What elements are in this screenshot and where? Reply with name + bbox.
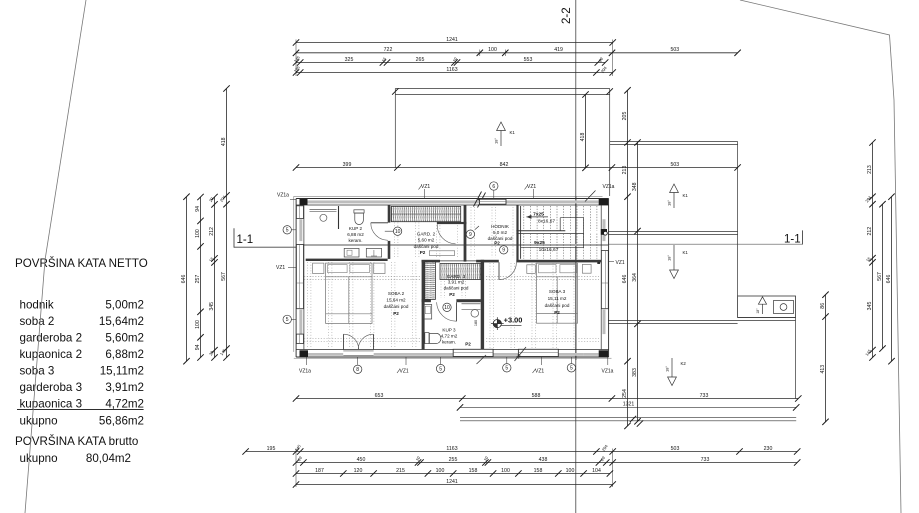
roof plane right edge xyxy=(737,142,739,297)
svg-text:KUP 3: KUP 3 xyxy=(442,328,456,333)
masonry pier stripe right wall xyxy=(603,310,606,335)
svg-text:POVRŠINA KATA NETTO: POVRŠINA KATA NETTO xyxy=(15,257,148,270)
svg-text:1-1: 1-1 xyxy=(784,233,801,245)
svg-text:4,72 m2: 4,72 m2 xyxy=(441,334,458,339)
ridge anchor block on right wall xyxy=(601,229,607,235)
circled number 9 in HODNIK xyxy=(466,230,474,238)
dimension chain bottom line 1 (195/1163/503/230) xyxy=(246,451,798,453)
svg-text:5: 5 xyxy=(439,366,442,372)
svg-text:P2: P2 xyxy=(449,292,455,297)
corner ticks upper rectangle xyxy=(392,88,398,94)
svg-text:503: 503 xyxy=(670,47,679,53)
svg-text:5,00m2: 5,00m2 xyxy=(105,299,144,312)
svg-text:348: 348 xyxy=(632,182,638,191)
dimension chain mid (653/588/733) xyxy=(296,398,798,400)
svg-text:187: 187 xyxy=(315,468,324,474)
drawer cabinet GARD2 xyxy=(429,251,454,256)
svg-text:18°: 18° xyxy=(667,200,672,206)
svg-text:10x16,67: 10x16,67 xyxy=(539,247,559,253)
svg-text:5: 5 xyxy=(505,366,508,372)
masonry pier stripes left wall xyxy=(299,219,302,241)
window mark slashes with labels xyxy=(477,355,487,364)
svg-text:2-2: 2-2 xyxy=(561,7,573,24)
svg-text:HODNIK: HODNIK xyxy=(491,224,510,229)
svg-text:503: 503 xyxy=(670,162,679,168)
svg-text:K1: K1 xyxy=(683,250,689,255)
nightstands SOBA2 xyxy=(313,263,324,273)
svg-text:5,60 m2: 5,60 m2 xyxy=(418,238,435,243)
svg-text:80,04m2: 80,04m2 xyxy=(86,452,131,465)
svg-text:100: 100 xyxy=(501,468,510,474)
roof plane K1 top edge xyxy=(610,141,738,143)
bed SOBA2 xyxy=(326,263,372,323)
svg-text:5,0 m2: 5,0 m2 xyxy=(493,230,507,235)
svg-text:345: 345 xyxy=(867,302,873,311)
window in right wall xyxy=(601,251,608,309)
dimension chain left (29/212/16/345/29) xyxy=(214,197,216,358)
svg-text:5: 5 xyxy=(286,228,289,234)
exterior wall bottom xyxy=(296,349,608,351)
masonry stripe segments bottom wall xyxy=(308,353,343,356)
dimension chain top line 3 xyxy=(296,62,605,64)
svg-text:733: 733 xyxy=(701,457,710,463)
balcony double door xyxy=(344,334,359,349)
svg-text:15,64m2: 15,64m2 xyxy=(99,315,144,328)
svg-text:3,91 m2: 3,91 m2 xyxy=(448,280,465,285)
dimension chain 399/842 xyxy=(296,167,738,169)
svg-text:VZ1a: VZ1a xyxy=(277,192,289,198)
svg-text:325: 325 xyxy=(345,57,354,63)
svg-text:SOBA 3: SOBA 3 xyxy=(549,289,566,294)
svg-text:VZ1a: VZ1a xyxy=(603,184,615,190)
svg-text:5: 5 xyxy=(570,366,573,372)
KUP3 top wall xyxy=(422,299,431,302)
svg-text:9x25: 9x25 xyxy=(534,240,545,246)
svg-text:254: 254 xyxy=(622,389,628,398)
svg-text:1163: 1163 xyxy=(446,446,457,452)
circled number 10 near KUP2 door xyxy=(385,230,394,232)
wardrobe GARD3 left xyxy=(425,262,436,300)
toilet KUP2 xyxy=(354,210,364,213)
svg-text:POVRŠINA KATA brutto: POVRŠINA KATA brutto xyxy=(15,435,138,448)
block at stair bottom-right xyxy=(597,261,600,264)
svg-text:VZ1: VZ1 xyxy=(276,265,285,271)
wardrobe GARD2 xyxy=(391,206,461,221)
svg-text:9: 9 xyxy=(469,232,472,238)
floorboard dotted lines xyxy=(308,207,575,349)
svg-text:733: 733 xyxy=(700,393,709,399)
svg-text:15,11m2: 15,11m2 xyxy=(100,365,144,378)
window in top wall (stairwell) xyxy=(480,199,507,204)
svg-text:1321: 1321 xyxy=(623,402,635,408)
attic kneewall dashed lines xyxy=(304,277,599,342)
door SOBA3 xyxy=(498,262,500,279)
svg-text:1241: 1241 xyxy=(446,37,458,43)
dimension chain right (213/294/212/16/345/29) xyxy=(872,143,874,358)
svg-text:100: 100 xyxy=(436,468,445,474)
dimension chain bottom line 3 (187/120/215/100/158/...) xyxy=(296,473,610,475)
svg-text:653: 653 xyxy=(375,393,384,399)
svg-text:10: 10 xyxy=(444,305,450,311)
svg-text:180: 180 xyxy=(474,320,478,326)
area table: POVRSINA KATA NETTO xyxy=(15,257,148,465)
svg-text:18°: 18° xyxy=(667,255,672,261)
svg-text:daščani pod: daščani pod xyxy=(384,304,409,309)
dimension chain left total 646 xyxy=(186,197,188,362)
svg-text:5: 5 xyxy=(286,317,289,323)
roof arrow K1 lower xyxy=(670,270,679,279)
roof plane K2 xyxy=(795,318,797,399)
toilet KUP3 xyxy=(425,333,429,344)
svg-text:450: 450 xyxy=(357,457,366,463)
svg-text:6,88m2: 6,88m2 xyxy=(105,348,144,361)
circled number 9 lower xyxy=(500,246,508,254)
svg-text:195: 195 xyxy=(267,446,276,452)
roof arrow K1 upper xyxy=(670,184,679,193)
svg-text:553: 553 xyxy=(524,57,533,63)
dimension chain right 567 xyxy=(882,204,884,348)
KUP3 right wall xyxy=(481,260,484,350)
interior wall GARD2/HODNIK vertical xyxy=(464,205,467,262)
svg-text:hodnik: hodnik xyxy=(20,299,54,312)
KUP3/GARD3 left wall xyxy=(422,262,425,350)
svg-text:+3.00: +3.00 xyxy=(504,316,523,325)
roof ridge line xyxy=(608,231,738,233)
circled number 10 at KUP3 door xyxy=(443,303,451,311)
svg-text:P2: P2 xyxy=(420,250,426,255)
svg-text:213: 213 xyxy=(622,166,628,175)
svg-text:K1: K1 xyxy=(510,130,516,135)
svg-text:P2: P2 xyxy=(465,342,471,347)
svg-text:daščani pod: daščani pod xyxy=(488,236,513,241)
svg-text:94: 94 xyxy=(195,344,201,350)
extension lines for top chains xyxy=(295,40,297,77)
svg-text:KUP 2: KUP 2 xyxy=(349,226,363,231)
svg-text:18°: 18° xyxy=(665,366,670,372)
svg-text:100: 100 xyxy=(195,229,201,238)
break slashes at stair window xyxy=(474,192,482,207)
svg-text:158: 158 xyxy=(534,468,543,474)
svg-text:646: 646 xyxy=(181,275,187,284)
dimension chain top line 4 (1163) xyxy=(296,72,613,74)
svg-text:646: 646 xyxy=(622,275,628,284)
dimension chain right 646 xyxy=(891,197,893,362)
svg-text:garderoba 3: garderoba 3 xyxy=(20,381,83,394)
window in bottom wall xyxy=(453,349,493,356)
svg-text:7x25: 7x25 xyxy=(533,211,544,217)
window in left wall xyxy=(296,206,303,219)
svg-text:daščani pod: daščani pod xyxy=(414,244,439,249)
window in bottom wall xyxy=(518,349,558,356)
dimension chain 86/413 xyxy=(825,295,827,422)
svg-text:213: 213 xyxy=(867,165,873,174)
svg-text:5,60m2: 5,60m2 xyxy=(105,332,144,345)
dimension chain left (94/100/257/100/94) xyxy=(200,197,202,358)
svg-text:212: 212 xyxy=(209,227,215,236)
svg-text:413: 413 xyxy=(820,365,826,374)
svg-text:ukupno: ukupno xyxy=(20,452,58,465)
svg-text:ukupno: ukupno xyxy=(20,415,58,428)
dimension chain 348/364/383 xyxy=(637,143,639,422)
svg-text:15,11 m2: 15,11 m2 xyxy=(548,296,567,301)
roof slope arrow K1 upper-left xyxy=(497,122,506,131)
door GARD2 xyxy=(437,222,467,224)
svg-text:383: 383 xyxy=(632,368,638,377)
svg-text:VZ1: VZ1 xyxy=(616,260,625,266)
svg-text:VZ1: VZ1 xyxy=(421,184,430,190)
svg-text:P2: P2 xyxy=(554,310,560,315)
dimension chain 205/213/646/254 xyxy=(627,90,629,426)
svg-text:GARD. 3: GARD. 3 xyxy=(447,274,466,279)
balcony door opening bottom xyxy=(343,350,373,356)
corner pier bottom-left xyxy=(300,350,309,357)
svg-text:646: 646 xyxy=(886,275,892,284)
interior wall KUP2/GARD2 vertical xyxy=(388,205,391,223)
svg-text:garderoba 2: garderoba 2 xyxy=(20,332,83,345)
svg-text:158: 158 xyxy=(469,468,478,474)
svg-text:kupaonica 2: kupaonica 2 xyxy=(20,348,83,361)
stair mid rails xyxy=(516,230,565,232)
underline under kupaonica 3 row xyxy=(17,408,144,410)
svg-text:345: 345 xyxy=(209,302,215,311)
svg-text:100: 100 xyxy=(195,320,201,329)
exterior wall left xyxy=(295,199,297,358)
svg-text:399: 399 xyxy=(343,162,352,168)
svg-text:722: 722 xyxy=(384,47,393,53)
interior wall below KUP2 xyxy=(306,259,388,261)
lower-storey outline rectangle xyxy=(395,88,609,90)
svg-text:8x16,67: 8x16,67 xyxy=(538,219,555,225)
section line 2-2 xyxy=(575,0,577,196)
svg-text:104: 104 xyxy=(592,468,601,474)
svg-text:6,88 m2: 6,88 m2 xyxy=(347,232,364,237)
svg-text:6: 6 xyxy=(492,184,495,190)
window in left wall xyxy=(296,245,303,309)
svg-text:VZ1a: VZ1a xyxy=(299,368,311,374)
svg-text:SOBA 2: SOBA 2 xyxy=(388,291,405,296)
roof eave line above K2 xyxy=(608,320,796,322)
svg-text:P2: P2 xyxy=(494,241,500,246)
dimension chain 1321 xyxy=(457,404,463,410)
lower eave lines xyxy=(460,406,796,408)
vanity KUP2 xyxy=(310,208,337,210)
corner pier bottom-right xyxy=(599,350,609,357)
svg-text:K2: K2 xyxy=(681,361,687,366)
window in left wall xyxy=(296,334,303,343)
svg-text:1163: 1163 xyxy=(446,67,457,73)
building outer contour offset line xyxy=(294,196,603,352)
svg-text:18°: 18° xyxy=(756,308,760,314)
svg-text:255: 255 xyxy=(449,457,458,463)
section line 1-1 xyxy=(234,246,296,248)
svg-text:418: 418 xyxy=(580,133,586,142)
corner pier top-right xyxy=(599,199,609,205)
stairwell left wall xyxy=(516,205,518,262)
svg-text:503: 503 xyxy=(671,446,680,452)
nightstands SOBA3 xyxy=(527,265,536,274)
svg-text:1-1: 1-1 xyxy=(237,234,254,246)
door KUP2 xyxy=(371,222,388,224)
svg-text:10: 10 xyxy=(395,229,401,235)
svg-text:GARD. 2: GARD. 2 xyxy=(417,232,436,237)
dormer box with skylight xyxy=(738,296,796,318)
interior wall below HODNIK/stairs xyxy=(422,260,441,263)
door KUP3 xyxy=(456,302,458,321)
wardrobe GARD3 right xyxy=(440,264,481,280)
svg-text:120: 120 xyxy=(354,468,363,474)
dimension chain bottom line 4 (1241) xyxy=(296,484,613,486)
corner pier top-left xyxy=(300,199,308,205)
svg-text:daščani pod: daščani pod xyxy=(444,285,469,290)
svg-text:100: 100 xyxy=(566,468,575,474)
svg-text:15,64 m2: 15,64 m2 xyxy=(386,298,406,303)
dimension chain upper-mid 418 xyxy=(585,95,587,168)
exterior wall right xyxy=(608,199,610,358)
stair walk-line arrow xyxy=(526,216,548,218)
roof arrow K2 xyxy=(668,377,677,386)
svg-text:86: 86 xyxy=(820,303,826,309)
property boundary line left xyxy=(25,0,86,513)
svg-text:VZ1: VZ1 xyxy=(400,368,409,374)
svg-text:364: 364 xyxy=(632,273,638,282)
svg-text:212: 212 xyxy=(867,227,873,236)
svg-text:588: 588 xyxy=(532,393,541,399)
svg-text:keram.: keram. xyxy=(348,238,362,243)
cabinet KUP3 xyxy=(424,305,432,320)
property boundary line right xyxy=(740,0,901,513)
stair landing outline xyxy=(520,206,522,259)
washer and dryer boxes xyxy=(344,248,359,257)
dimension chain top line 1 (1241) xyxy=(296,42,613,44)
staircase treads xyxy=(524,206,597,259)
svg-text:842: 842 xyxy=(500,162,509,168)
half wall in KUP2 xyxy=(338,206,340,229)
dimension chain left outer (418 + 294/567/145) xyxy=(226,89,228,358)
svg-text:1241: 1241 xyxy=(446,479,458,485)
svg-text:418: 418 xyxy=(221,137,227,146)
dimension chain bottom line 2 (450/255/438/733) xyxy=(296,462,797,464)
svg-text:VZ1: VZ1 xyxy=(535,368,544,374)
svg-text:100: 100 xyxy=(488,47,497,53)
svg-text:keram.: keram. xyxy=(442,340,456,345)
svg-text:94: 94 xyxy=(195,206,201,212)
svg-text:VZ1a: VZ1a xyxy=(602,368,614,374)
svg-text:56,86m2: 56,86m2 xyxy=(99,415,144,428)
svg-text:419: 419 xyxy=(554,47,563,53)
washbasin counter KUP3 xyxy=(462,303,481,305)
svg-text:P2: P2 xyxy=(393,311,399,316)
dimension chain top line 2 (722/100/419/503) xyxy=(296,52,738,54)
svg-text:daščani pod: daščani pod xyxy=(545,303,570,308)
svg-text:soba 2: soba 2 xyxy=(20,315,55,328)
svg-text:4,72m2: 4,72m2 xyxy=(105,398,144,411)
svg-text:kupaonica 3: kupaonica 3 xyxy=(20,398,83,411)
exterior wall top xyxy=(296,198,608,200)
bed SOBA3 xyxy=(537,263,578,323)
svg-text:567: 567 xyxy=(221,272,227,281)
svg-text:567: 567 xyxy=(877,272,883,281)
svg-text:265: 265 xyxy=(416,57,425,63)
svg-text:205: 205 xyxy=(622,112,628,121)
level marker +3.00 xyxy=(493,320,501,328)
svg-text:215: 215 xyxy=(396,468,405,474)
svg-text:VZ1: VZ1 xyxy=(527,184,536,190)
extension lines for bottom chains xyxy=(295,449,297,488)
svg-text:9: 9 xyxy=(502,248,505,254)
svg-text:K1: K1 xyxy=(683,193,689,198)
svg-text:8: 8 xyxy=(356,367,359,373)
svg-text:230: 230 xyxy=(764,446,773,452)
svg-text:18°: 18° xyxy=(494,138,499,144)
svg-text:257: 257 xyxy=(195,275,201,284)
svg-text:3,91m2: 3,91m2 xyxy=(105,381,144,394)
svg-text:438: 438 xyxy=(539,457,548,463)
